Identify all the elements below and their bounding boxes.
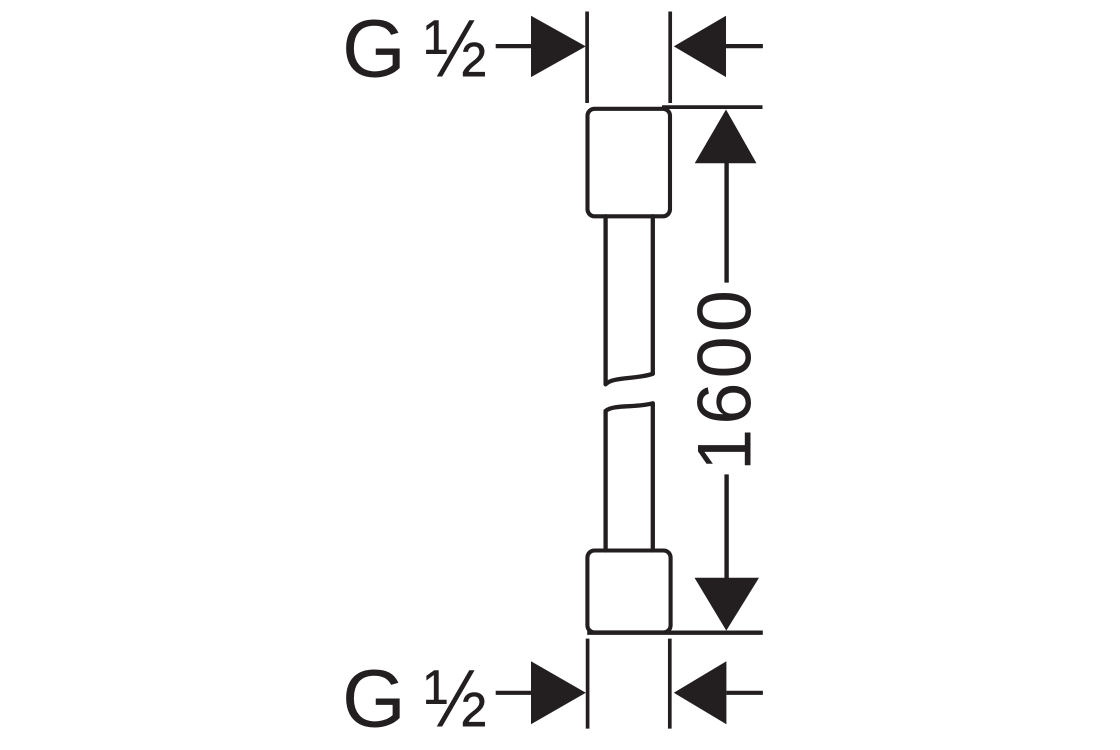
- svg-text:½: ½: [424, 3, 487, 94]
- svg-text:G: G: [342, 654, 406, 745]
- svg-text:1600: 1600: [683, 286, 768, 471]
- svg-text:G: G: [342, 3, 406, 94]
- svg-text:½: ½: [424, 654, 487, 745]
